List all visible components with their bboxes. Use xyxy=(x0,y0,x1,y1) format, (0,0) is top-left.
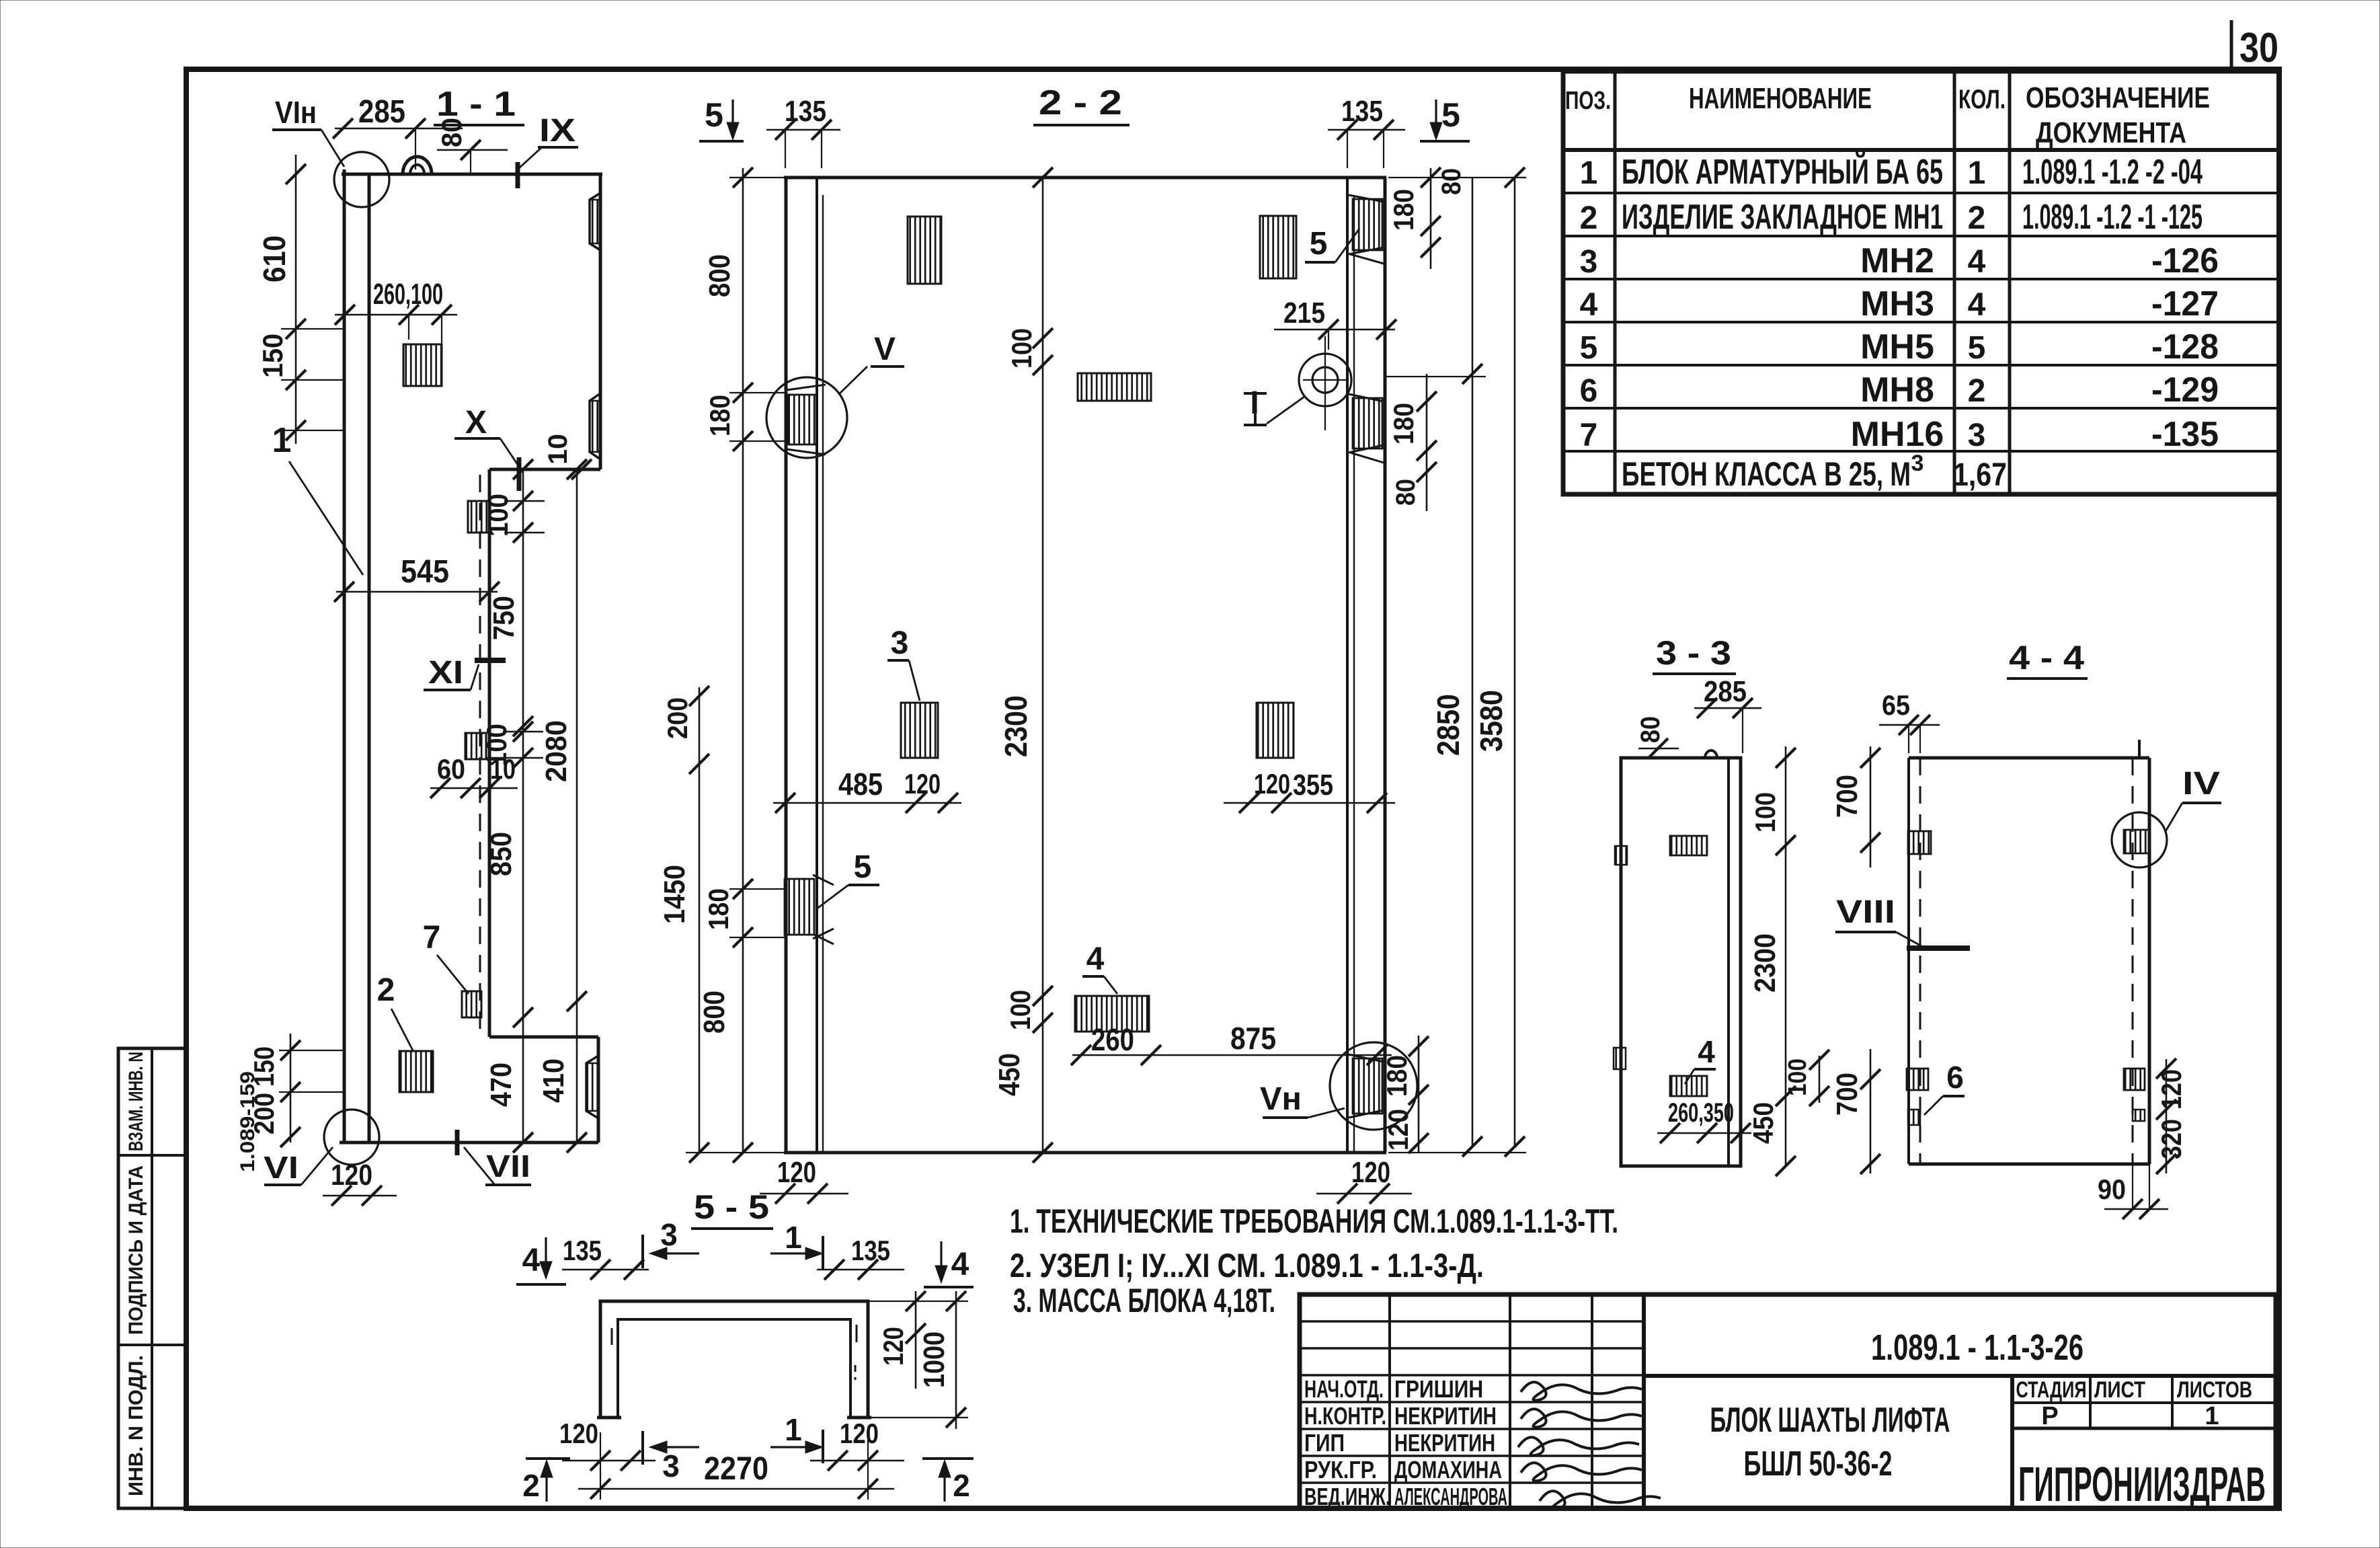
corbel left V detail hatched xyxy=(788,395,817,444)
svg-text:215: 215 xyxy=(1283,297,1325,330)
svg-text:-135: -135 xyxy=(2151,415,2219,454)
svg-text:700: 700 xyxy=(1831,775,1864,818)
svg-text:2: 2 xyxy=(953,1468,970,1503)
parts table header line xyxy=(1563,148,2279,152)
svg-text:2300: 2300 xyxy=(1749,933,1782,993)
node X tick on step xyxy=(517,457,522,491)
section marker 3 top of 5-5 xyxy=(641,1235,644,1268)
signature squiggle 3 xyxy=(1518,1437,1639,1455)
svg-text:120: 120 xyxy=(777,1156,816,1189)
view 1-1 lower step xyxy=(489,1036,598,1039)
view 5-5 channel inner outline xyxy=(618,1319,850,1418)
dim 260,100 line xyxy=(335,314,457,316)
svg-text:4: 4 xyxy=(1698,1034,1715,1069)
svg-text:БШЛ 50-36-2: БШЛ 50-36-2 xyxy=(1744,1444,1893,1483)
dim 610 extension at 489 xyxy=(281,328,344,330)
svg-text:МН16: МН16 xyxy=(1851,415,1944,454)
embedded plate center landscape xyxy=(1078,373,1151,401)
svg-text:2: 2 xyxy=(377,972,395,1008)
svg-text:180: 180 xyxy=(1388,189,1419,231)
title block left col3 divider xyxy=(1591,1294,1593,1508)
parts table row line 3 xyxy=(1563,278,2279,280)
dim 215 ext through circle xyxy=(1328,330,1329,350)
view 5-5 right leg bottom xyxy=(847,1416,871,1420)
label I leader xyxy=(1267,397,1304,424)
parts table column ПОЗ divider xyxy=(1614,71,1617,494)
label XI leader xyxy=(471,664,479,690)
title block doc number cell line xyxy=(1644,1374,2276,1378)
dim 215 line xyxy=(1274,329,1395,331)
section marker 2 up left of 5-5 xyxy=(526,1457,570,1460)
svg-text:ПОДПИСЬ И ДАТА: ПОДПИСЬ И ДАТА xyxy=(125,1165,147,1335)
title block row line 5 xyxy=(1300,1428,1644,1430)
plate right lower of 4-4 xyxy=(2124,1069,2145,1090)
svg-text:80: 80 xyxy=(1391,479,1421,506)
dim 610 extension at 565 xyxy=(281,379,344,381)
plate in circle IV xyxy=(2124,830,2149,853)
svg-text:3580: 3580 xyxy=(1474,690,1509,752)
view 4-4 right edge xyxy=(2148,758,2151,1164)
svg-text:2: 2 xyxy=(1968,200,1986,236)
corbel left lower 5 hatched xyxy=(785,879,814,935)
dim line bottom right chain xyxy=(1418,1036,1420,1153)
page number line xyxy=(2230,20,2233,71)
svg-text:-127: -127 xyxy=(2151,284,2219,323)
svg-text:МН5: МН5 xyxy=(1860,327,1934,366)
view 2-2 left wall inner xyxy=(816,178,818,1153)
ext lines right of 5-5 xyxy=(868,1301,968,1302)
svg-text:150: 150 xyxy=(248,1046,280,1087)
svg-text:ЛИСТОВ: ЛИСТОВ xyxy=(2177,1377,2252,1403)
corbel mid right hatched xyxy=(1353,398,1382,449)
svg-text:3: 3 xyxy=(1968,418,1986,453)
label X underline xyxy=(454,437,500,440)
svg-text:7: 7 xyxy=(1580,418,1598,453)
view 5-5 left leg bottom xyxy=(597,1416,621,1420)
corbel top right hatched xyxy=(1353,199,1382,250)
dim 100 stubs lower-mid xyxy=(503,731,543,733)
svg-text:1000: 1000 xyxy=(918,1331,951,1388)
svg-text:1: 1 xyxy=(272,421,292,460)
title block row line 4 xyxy=(1300,1401,1644,1403)
ext lines bottom left dims xyxy=(279,1050,344,1051)
svg-text:135: 135 xyxy=(563,1235,602,1266)
signature squiggle 2 xyxy=(1521,1409,1642,1427)
svg-text:1: 1 xyxy=(1968,155,1986,191)
view 1-1 lifting loop xyxy=(403,157,432,174)
node VIII thick dash xyxy=(1907,945,1970,951)
svg-text:320: 320 xyxy=(2155,1119,2187,1159)
svg-text:260,100: 260,100 xyxy=(373,278,443,311)
svg-text:1,67: 1,67 xyxy=(1953,457,2007,493)
dim 485-120 line xyxy=(773,802,961,804)
embedded plate bottom of 3-3 xyxy=(1670,1076,1707,1096)
svg-text:5: 5 xyxy=(1580,330,1598,366)
svg-text:1: 1 xyxy=(785,1412,802,1447)
label VIH leader xyxy=(321,130,344,167)
svg-text:V: V xyxy=(874,332,896,367)
svg-text:4 - 4: 4 - 4 xyxy=(2009,639,2084,676)
dim 10 tick at step right xyxy=(571,459,592,479)
svg-text:БЛОК АРМАТУРНЫЙ БА 65: БЛОК АРМАТУРНЫЙ БА 65 xyxy=(1622,152,1943,192)
svg-text:VIII: VIII xyxy=(1836,894,1895,930)
dim 545 line xyxy=(336,591,498,593)
svg-text:4: 4 xyxy=(1086,941,1105,977)
dim 100 stubs upper-mid xyxy=(504,500,545,502)
svg-text:6: 6 xyxy=(1946,1060,1964,1095)
svg-text:4: 4 xyxy=(1968,244,1986,280)
title block СТАДИЯ col divider xyxy=(2089,1376,2092,1428)
svg-text:НАИМЕНОВАНИЕ: НАИМЕНОВАНИЕ xyxy=(1689,82,1872,115)
view 4-4 right dashed line xyxy=(2132,758,2134,1164)
svg-text:Н.КОНТР.: Н.КОНТР. xyxy=(1304,1402,1386,1430)
parts table row line 5 xyxy=(1563,364,2279,366)
detail circle VIH at top corner xyxy=(334,152,389,207)
svg-text:200: 200 xyxy=(248,1093,280,1134)
svg-text:410: 410 xyxy=(537,1058,570,1103)
embedded plate right of 3 xyxy=(1257,703,1294,758)
plate hatched 2 in 1-1 xyxy=(399,1051,433,1092)
svg-text:5: 5 xyxy=(854,849,872,885)
svg-text:750: 750 xyxy=(487,596,520,640)
svg-text:РУК.ГР.: РУК.ГР. xyxy=(1304,1456,1377,1483)
view 4-4 left edge xyxy=(1907,758,1910,1164)
svg-text:-126: -126 xyxy=(2151,241,2219,280)
svg-text:5 - 5: 5 - 5 xyxy=(694,1188,769,1226)
svg-text:450: 450 xyxy=(1747,1102,1779,1144)
dim 285 line xyxy=(335,128,463,130)
title block left col2 divider xyxy=(1509,1294,1511,1508)
svg-text:5: 5 xyxy=(1441,96,1460,134)
svg-text:120: 120 xyxy=(1382,1109,1414,1151)
plate left upper of 4-4 xyxy=(1908,831,1931,854)
svg-text:АЛЕКСАНДРОВА: АЛЕКСАНДРОВА xyxy=(1394,1483,1507,1510)
svg-text:260: 260 xyxy=(1091,1022,1134,1057)
view 1-1 inner vertical edge xyxy=(488,469,491,1037)
detail circle VH xyxy=(1330,1042,1417,1130)
view 3-3 lifting loop xyxy=(1705,750,1717,758)
section marker 2 up right of 5-5 xyxy=(922,1457,974,1460)
leader line for label 1 xyxy=(289,461,363,575)
view 5-5 channel outer outline xyxy=(600,1301,868,1418)
title block row line 7 xyxy=(1300,1481,1644,1484)
left dim inner line 800-180 chain xyxy=(742,168,744,1153)
svg-text:2: 2 xyxy=(1580,200,1598,236)
svg-text:ГИПРОНИИЗДРАВ: ГИПРОНИИЗДРАВ xyxy=(2018,1458,2266,1512)
dim 260,100 ext a xyxy=(408,315,409,340)
leader line for label 7 xyxy=(437,955,469,994)
svg-text:800: 800 xyxy=(703,254,736,297)
parts table row line 7 xyxy=(1563,450,2279,453)
view 2-2 title underline xyxy=(1033,124,1129,126)
detail circle VI bottom corner xyxy=(324,1110,379,1165)
label VIH underline xyxy=(272,128,321,131)
ext line at circle level to 2850 xyxy=(1386,376,1486,377)
svg-text:ВЗАМ. ИНВ. N: ВЗАМ. ИНВ. N xyxy=(125,1052,147,1151)
svg-text:4: 4 xyxy=(1580,287,1598,323)
label IX underline xyxy=(538,146,578,149)
svg-text:5: 5 xyxy=(705,96,723,134)
sidebar divider h2 xyxy=(118,1344,186,1346)
svg-text:1. ТЕХНИЧЕСКИЕ ТРЕБОВАНИЯ СМ.1: 1. ТЕХНИЧЕСКИЕ ТРЕБОВАНИЯ СМ.1.089.1-1.1… xyxy=(1010,1202,1618,1240)
view 1-1 step at right xyxy=(489,468,600,471)
signature squiggle 1 xyxy=(1521,1382,1642,1400)
svg-text:ДОКУМЕНТА: ДОКУМЕНТА xyxy=(2036,116,2186,149)
svg-text:ОБОЗНАЧЕНИЕ: ОБОЗНАЧЕНИЕ xyxy=(2026,81,2210,114)
title block row line 3 xyxy=(1300,1374,1644,1377)
svg-text:БЕТОН КЛАССА В 25, М: БЕТОН КЛАССА В 25, М xyxy=(1622,455,1911,493)
label VII leader xyxy=(464,1147,495,1185)
parts table row line 4 xyxy=(1563,321,2279,323)
svg-text:НЕКРИТИН: НЕКРИТИН xyxy=(1394,1429,1495,1457)
svg-text:135: 135 xyxy=(851,1235,890,1266)
leader line for label 2 xyxy=(391,1009,413,1050)
svg-text:2 - 2: 2 - 2 xyxy=(1039,83,1122,122)
svg-text:Vн: Vн xyxy=(1260,1081,1302,1117)
svg-text:ДОМАХИНА: ДОМАХИНА xyxy=(1394,1456,1502,1483)
svg-text:10: 10 xyxy=(490,753,516,785)
right notch lower hatched of view 1-1 xyxy=(586,1056,598,1118)
svg-text:VI: VI xyxy=(264,1150,299,1185)
view 4-4 bottom edge xyxy=(1909,1163,2149,1166)
node VII tick on bottom edge xyxy=(455,1130,460,1155)
svg-text:100: 100 xyxy=(1749,792,1781,833)
plate small left bottom of 4-4 xyxy=(1908,1110,1920,1125)
svg-text:2850: 2850 xyxy=(1431,694,1466,756)
svg-text:150: 150 xyxy=(257,334,288,378)
view 4-4 left dashed line xyxy=(1919,758,1921,1164)
svg-text:Р: Р xyxy=(2041,1402,2058,1430)
svg-text:285: 285 xyxy=(358,94,405,130)
svg-text:180: 180 xyxy=(704,395,736,436)
svg-text:470: 470 xyxy=(485,1062,518,1107)
sidebar divider vertical xyxy=(151,1048,153,1508)
chain dim line 750-850-470 xyxy=(522,469,524,1143)
svg-text:ИНВ. N ПОДЛ.: ИНВ. N ПОДЛ. xyxy=(125,1355,147,1496)
left dim outer line 200-1450 xyxy=(699,687,701,1153)
view 3-3 outline xyxy=(1621,758,1741,1166)
svg-text:3 - 3: 3 - 3 xyxy=(1656,634,1731,672)
svg-text:1.089.1 -1.2 -1 -125: 1.089.1 -1.2 -1 -125 xyxy=(2022,198,2203,237)
plate hatched 7 in 1-1 xyxy=(462,991,481,1017)
svg-text:355: 355 xyxy=(1293,769,1333,802)
view 1-1 bottom edge xyxy=(340,1141,598,1145)
svg-text:ЛИСТ: ЛИСТ xyxy=(2094,1377,2145,1403)
parts table outer xyxy=(1563,71,2279,494)
embedded plate top right portrait xyxy=(1260,216,1296,278)
embedded plate top left portrait xyxy=(908,217,941,284)
view 2-2 right wall inner second xyxy=(1353,195,1355,1153)
left notch lower of 3-3 xyxy=(1614,1048,1626,1069)
dim 610-150 vertical line xyxy=(295,155,297,444)
view 4-4 title underline xyxy=(2007,677,2088,680)
svg-text:НЕКРИТИН: НЕКРИТИН xyxy=(1394,1402,1497,1430)
section marker 1 top of 5-5 xyxy=(822,1236,824,1270)
left notch upper of 3-3 xyxy=(1615,846,1627,865)
view 1-1 top edge xyxy=(342,173,602,176)
svg-text:485: 485 xyxy=(838,767,883,802)
svg-text:IX: IX xyxy=(539,113,576,149)
view 2-2 top edge xyxy=(784,176,1386,180)
svg-text:65: 65 xyxy=(1882,689,1910,721)
svg-text:МН8: МН8 xyxy=(1860,371,1934,410)
svg-text:3: 3 xyxy=(660,1217,678,1252)
svg-text:610: 610 xyxy=(257,235,292,282)
title block left col1 divider xyxy=(1388,1294,1391,1508)
svg-text:875: 875 xyxy=(1230,1021,1276,1056)
svg-text:1450: 1450 xyxy=(658,865,691,924)
svg-text:VIн: VIн xyxy=(275,95,317,130)
svg-text:80: 80 xyxy=(1636,716,1665,743)
svg-text:НАЧ.ОТД.: НАЧ.ОТД. xyxy=(1304,1375,1384,1403)
dim 610 extension at 640 xyxy=(281,430,344,431)
svg-text:2: 2 xyxy=(522,1468,540,1503)
svg-text:180: 180 xyxy=(1381,1055,1413,1097)
embedded plate top of 3-3 xyxy=(1670,836,1707,855)
svg-text:-129: -129 xyxy=(2151,371,2219,410)
dim chain mid right 180-80 xyxy=(1426,374,1428,511)
svg-text:100: 100 xyxy=(1004,990,1036,1030)
svg-text:1: 1 xyxy=(2205,1402,2219,1430)
svg-text:1.089.1 - 1.1-3-26: 1.089.1 - 1.1-3-26 xyxy=(1871,1327,2084,1368)
svg-text:ИЗДЕЛИЕ ЗАКЛАДНОЕ МН1: ИЗДЕЛИЕ ЗАКЛАДНОЕ МН1 xyxy=(1622,198,1943,237)
signature squiggle 4 xyxy=(1521,1463,1642,1481)
svg-text:ВЕД.ИНЖ.: ВЕД.ИНЖ. xyxy=(1304,1483,1390,1510)
title block stage header row line xyxy=(2012,1401,2276,1404)
plate left lower of 4-4 xyxy=(1907,1069,1928,1090)
parts table row line 2 xyxy=(1563,235,2279,237)
dim 285 extension right xyxy=(415,128,416,169)
plate hatched small lower-mid 1-1 xyxy=(465,733,486,759)
svg-text:120: 120 xyxy=(559,1418,598,1449)
corbel bottom right VH hatched xyxy=(1353,1058,1382,1114)
title block outer xyxy=(1300,1294,2276,1508)
right notch mid of view 1-1 xyxy=(590,393,600,459)
svg-text:2270: 2270 xyxy=(704,1451,768,1487)
dim 260,100 ext b xyxy=(441,315,442,350)
svg-text:КОЛ.: КОЛ. xyxy=(1958,85,2006,114)
parts table column НАИМЕНОВАНИЕ divider xyxy=(1953,71,1956,494)
svg-text:4: 4 xyxy=(951,1247,969,1282)
view 4-4 top pin xyxy=(2138,740,2141,758)
svg-text:3. МАССА БЛОКА 4,18Т.: 3. МАССА БЛОКА 4,18Т. xyxy=(1013,1282,1275,1319)
view 5-5 right leg inner mark xyxy=(856,1325,858,1342)
embedded plate 4 hatched landscape xyxy=(1075,996,1149,1032)
svg-text:120: 120 xyxy=(840,1418,879,1449)
svg-text:5: 5 xyxy=(1310,226,1328,262)
label VII underline xyxy=(485,1184,531,1186)
svg-text:120: 120 xyxy=(877,1327,909,1366)
svg-text:100: 100 xyxy=(1006,328,1037,369)
ext lines left dim chains xyxy=(729,177,784,178)
view 5-5 left leg inner mark xyxy=(611,1328,613,1345)
right notch upper of view 1-1 xyxy=(590,193,600,250)
svg-text:3: 3 xyxy=(662,1448,680,1483)
svg-text:545: 545 xyxy=(401,554,449,590)
detail circle I outer xyxy=(1299,354,1351,406)
detail circle IV of 4-4 xyxy=(2112,812,2167,867)
view 1-1 wall inner line xyxy=(368,173,371,1143)
parts table row line 1 xyxy=(1563,192,2279,194)
overall dim 3580 line xyxy=(1514,178,1516,1147)
label VI leader xyxy=(301,1147,333,1185)
overall dim 2850 line xyxy=(1472,178,1474,1147)
parts table column КОЛ divider xyxy=(2008,71,2012,494)
svg-text:2080: 2080 xyxy=(540,720,573,782)
center dim line 2300 xyxy=(1042,178,1044,1153)
node IX tick on top edge xyxy=(516,162,520,188)
svg-text:60: 60 xyxy=(437,753,465,785)
detail circle V xyxy=(766,377,847,458)
svg-text:3: 3 xyxy=(1580,244,1598,280)
svg-text:-128: -128 xyxy=(2151,327,2219,366)
ext line top to 3580 xyxy=(1388,177,1526,178)
view 5-5 title underline xyxy=(691,1227,773,1230)
plate hatched small upper-mid 1-1 xyxy=(468,501,489,533)
view 2-2 right wall outer xyxy=(1384,178,1387,1153)
svg-text:1: 1 xyxy=(785,1220,802,1255)
dim 60-10 line xyxy=(430,787,518,789)
svg-text:100: 100 xyxy=(1784,1058,1812,1096)
view 1-1 title underline xyxy=(434,124,524,126)
view 1-1 wall outer line xyxy=(343,169,346,1143)
svg-text:450: 450 xyxy=(993,1053,1026,1096)
dim chain right of 3-3 xyxy=(1785,746,1787,1166)
svg-text:180: 180 xyxy=(1388,403,1419,444)
dim 260-875 line xyxy=(1072,1054,1392,1056)
section marker 3 bottom of 5-5 xyxy=(641,1431,644,1465)
view 2-2 left wall inner second xyxy=(822,195,824,1153)
view 1-1 hidden dashed edge xyxy=(479,475,481,1037)
ext line bottom to 3580 xyxy=(1388,1152,1526,1153)
label IX leader xyxy=(519,147,542,168)
svg-text:80: 80 xyxy=(436,118,467,147)
svg-text:6: 6 xyxy=(1580,373,1598,409)
view 3-3 title underline xyxy=(1653,672,1736,675)
view 2-2 bottom edge xyxy=(784,1151,1386,1155)
dim 150-200 vertical line bottom left xyxy=(290,1034,292,1143)
signature squiggle 5 xyxy=(1540,1491,1661,1509)
svg-text:850: 850 xyxy=(485,832,518,876)
svg-text:X: X xyxy=(465,405,487,440)
svg-text:1: 1 xyxy=(1580,155,1598,191)
view 4-4 top edge xyxy=(1909,757,2149,760)
sidebar divider h1 xyxy=(118,1154,186,1157)
svg-text:30: 30 xyxy=(2239,25,2278,71)
parts table row line 6 xyxy=(1563,407,2279,410)
embedded plate 3 hatched xyxy=(901,703,938,758)
svg-text:3: 3 xyxy=(891,625,909,661)
title block name cell divider xyxy=(2010,1376,2014,1508)
embedded plate in 1-1 upper hatched xyxy=(403,344,442,386)
dim 120 line bottom of 1-1 xyxy=(323,1195,397,1197)
svg-text:200: 200 xyxy=(662,697,693,739)
svg-text:135: 135 xyxy=(1341,95,1383,128)
view 3-3 inner right wall line xyxy=(1727,758,1730,1166)
label XI underline xyxy=(424,689,471,691)
svg-text:ПОЗ.: ПОЗ. xyxy=(1565,87,1611,115)
svg-text:СТАДИЯ: СТАДИЯ xyxy=(2016,1377,2087,1403)
svg-text:2. УЗЕЛ I; IУ...ХI СМ. 1.089.1: 2. УЗЕЛ I; IУ...ХI СМ. 1.089.1 - 1.1-3-Д… xyxy=(1010,1247,1484,1284)
svg-text:IV: IV xyxy=(2182,766,2220,802)
svg-text:МН3: МН3 xyxy=(1860,284,1934,323)
title block row line 2 xyxy=(1300,1347,1644,1350)
plate small right bottom of 4-4 xyxy=(2133,1110,2145,1121)
view 2-2 right wall inner xyxy=(1346,178,1349,1153)
svg-text:800: 800 xyxy=(698,991,731,1034)
circle I crosshair xyxy=(1303,379,1347,381)
svg-text:2300: 2300 xyxy=(998,695,1033,757)
